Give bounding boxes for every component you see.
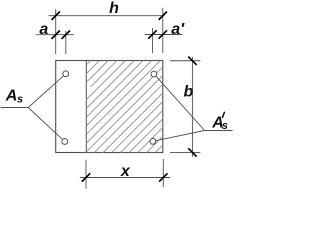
compression zone boundary line (85, 61, 87, 153)
a' extension line (152, 28, 154, 53)
a dimension line (36, 34, 74, 36)
a' dimension line (145, 34, 183, 36)
x extension line right (162, 159, 164, 187)
x tick right (159, 173, 167, 181)
x tick left (82, 173, 90, 181)
b tick top (188, 57, 196, 65)
rebar circle bottom-left (62, 139, 68, 145)
svg-text:s: s (222, 120, 228, 132)
svg-text:h: h (109, 0, 119, 17)
h extension line right (162, 8, 164, 53)
h dimension line (48, 15, 164, 17)
As leader tail (1, 107, 29, 109)
section outline rectangle (56, 61, 163, 153)
x extension line left (85, 160, 87, 189)
As leader to top-left rebar (28, 76, 63, 108)
svg-text:s: s (17, 94, 23, 106)
svg-text:b: b (184, 84, 194, 101)
rebar circle bottom-right (150, 138, 156, 144)
x dimension line (80, 177, 171, 179)
a' tick right (159, 30, 167, 38)
b tick bottom (188, 148, 196, 156)
A's leader tail (205, 130, 233, 132)
As leader to bottom-left rebar (28, 108, 62, 140)
rebar circle top-right (151, 71, 157, 77)
A's leader to bottom-right rebar (156, 131, 205, 141)
A's leader to top-right rebar (156, 77, 204, 131)
b dimension line (191, 57, 193, 157)
h tick left (52, 12, 60, 20)
a tick right (62, 31, 70, 39)
svg-text:x: x (120, 163, 131, 180)
h tick right (159, 12, 167, 20)
svg-text:A: A (5, 88, 18, 105)
rebar circle top-left (63, 71, 69, 77)
b extension line top (170, 60, 200, 62)
b extension line bottom (170, 151, 200, 153)
a extension line (65, 31, 67, 54)
svg-text:a′: a′ (171, 21, 185, 38)
h extension line left (55, 9, 57, 54)
hatch lines of compression zone (60, 0, 317, 161)
a tick left (52, 31, 60, 39)
a' tick left (148, 30, 156, 38)
svg-text:a: a (39, 21, 48, 38)
